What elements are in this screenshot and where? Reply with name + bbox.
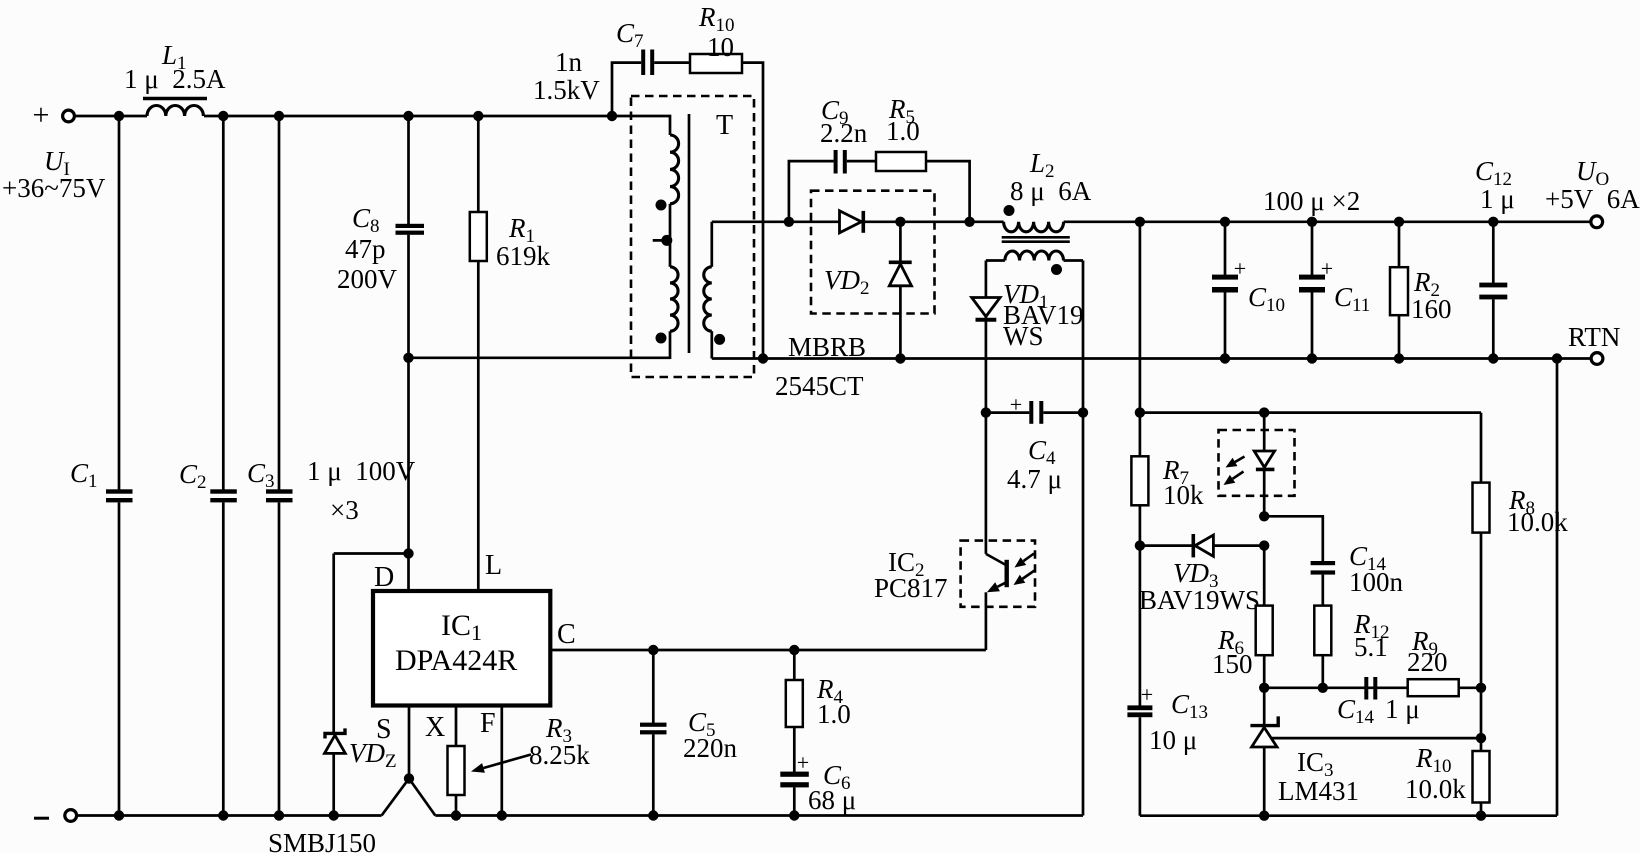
resistor R2	[1398, 222, 1401, 267]
wire riser to RTN	[1556, 359, 1559, 816]
rectifier VD2 dashed box	[811, 191, 935, 314]
svg-text:68 μ: 68 μ	[808, 785, 856, 815]
resistor R8	[1480, 413, 1483, 483]
svg-text:DPA424R: DPA424R	[395, 644, 517, 677]
wire R5 right down	[926, 161, 970, 222]
capacitor C8	[407, 116, 410, 224]
phase dot primary lower	[656, 333, 667, 344]
resistor R12	[1314, 606, 1331, 656]
wire D node to IC1	[334, 552, 409, 555]
capacitor C13	[1139, 546, 1142, 706]
node + input terminal	[63, 110, 75, 122]
IC2 light arrows	[1023, 554, 1034, 562]
wire to C7	[612, 63, 641, 116]
phase dot secondary	[714, 334, 725, 345]
wire C pin	[550, 649, 986, 652]
wire primary top lead	[669, 116, 671, 135]
wire feedback bottom rail	[1140, 814, 1557, 817]
node junctions bottom rail	[114, 810, 124, 820]
capacitor C10	[1224, 222, 1227, 275]
- input terminal	[65, 810, 77, 822]
wire RTN rail	[712, 357, 1591, 360]
L2 sense winding	[986, 259, 1005, 262]
svg-text:BAV19WS: BAV19WS	[1139, 585, 1260, 615]
output terminal UO	[1591, 216, 1603, 228]
wire feedback top line	[1140, 411, 1481, 414]
wire F pin	[500, 706, 503, 816]
wire sense winding leads	[985, 261, 988, 299]
optocoupler LED dashed box	[1219, 430, 1295, 496]
wire LED cathode to R6	[1263, 546, 1266, 606]
resistor R10 (top)	[690, 54, 742, 73]
svg-text:10k: 10k	[1163, 480, 1204, 510]
diode VD1	[972, 298, 1000, 317]
svg-text:10: 10	[707, 32, 734, 62]
capacitor C4	[986, 411, 1029, 414]
optocoupler IC2 PC817 dashed box	[961, 541, 1035, 607]
svg-text:5.1: 5.1	[1354, 632, 1388, 662]
capacitor C7	[641, 50, 645, 76]
phase dot L2 sense	[1051, 264, 1062, 275]
RTN output terminal	[1591, 353, 1603, 365]
svg-text:1.0: 1.0	[886, 116, 920, 146]
inductor L2 main winding	[1004, 222, 1064, 232]
svg-text:PC817: PC817	[874, 573, 948, 603]
wire top rail	[204, 115, 669, 118]
wire primary middle	[669, 204, 672, 267]
svg-text:47p: 47p	[345, 234, 386, 264]
L2 core bars	[1002, 236, 1070, 239]
wire primary bottom lead	[669, 331, 672, 359]
svg-text:C: C	[557, 619, 576, 650]
svg-text:+: +	[1321, 256, 1333, 281]
capacitor C6	[780, 772, 809, 777]
svg-text:8 μ 6A: 8 μ 6A	[1010, 176, 1092, 206]
svg-text:4.7 μ: 4.7 μ	[1007, 464, 1062, 494]
capacitor C5	[652, 650, 655, 723]
svg-text:×3: ×3	[330, 495, 359, 525]
svg-text:1.0: 1.0	[817, 699, 851, 729]
svg-text:2545CT: 2545CT	[775, 371, 864, 401]
shunt regulator IC3 LM431	[1263, 688, 1266, 725]
svg-text:150: 150	[1212, 649, 1253, 679]
svg-text:T: T	[716, 110, 733, 141]
wire output sense riser	[1139, 222, 1142, 413]
svg-text:SMBJ150: SMBJ150	[268, 828, 376, 853]
transformer T dashed box	[631, 96, 754, 377]
capacitor C2	[222, 116, 225, 490]
capacitor C3	[278, 116, 281, 490]
svg-text:1 μ: 1 μ	[1480, 184, 1515, 214]
wire S-pin vee	[382, 779, 436, 816]
svg-text:+: +	[33, 99, 50, 132]
resistor R7	[1139, 413, 1142, 457]
phase dot primary upper	[656, 200, 667, 211]
capacitor C14 1u	[1364, 677, 1368, 700]
node junctions top rail	[114, 111, 124, 121]
svg-text:LM431: LM431	[1278, 776, 1359, 806]
wire output rail to terminal	[1064, 220, 1591, 223]
svg-text:100n: 100n	[1349, 567, 1404, 597]
resistor R9	[1408, 679, 1459, 696]
primary tap stub	[653, 239, 670, 242]
wire LM431 ref	[1271, 737, 1481, 740]
snubber C9 R5 branch	[789, 161, 834, 222]
svg-text:220n: 220n	[683, 733, 738, 763]
svg-text:1.5kV: 1.5kV	[533, 75, 600, 105]
IC2 phototransistor	[986, 554, 1005, 565]
svg-text:+: +	[1234, 256, 1246, 281]
svg-text:+: +	[797, 750, 809, 775]
transformer core	[688, 114, 691, 353]
svg-text:1 μ 100V: 1 μ 100V	[307, 456, 416, 486]
resistor R6	[1256, 606, 1273, 656]
svg-text:220: 220	[1407, 647, 1448, 677]
wire top rail left	[75, 115, 147, 118]
capacitor C14 100n	[1311, 561, 1336, 565]
svg-text:L: L	[485, 550, 502, 581]
svg-text:D: D	[374, 562, 394, 593]
diode VD2a	[840, 211, 862, 233]
svg-text:10 μ: 10 μ	[1149, 725, 1197, 755]
phase dot L2 top	[1004, 205, 1015, 216]
svg-text:2.2n: 2.2n	[820, 118, 868, 148]
capacitor C9	[834, 150, 838, 174]
svg-text:619k: 619k	[496, 241, 551, 271]
LED light arrows	[1235, 457, 1244, 462]
zener VDz SMBJ150	[332, 554, 335, 734]
svg-text:F: F	[480, 708, 496, 739]
svg-text:+: +	[1141, 682, 1153, 707]
resistor R4	[789, 645, 799, 655]
capacitor C1	[118, 116, 121, 490]
wire S pin	[408, 706, 411, 779]
svg-text:1n: 1n	[555, 47, 583, 77]
svg-text:10.0k: 10.0k	[1405, 774, 1466, 804]
svg-text:100 μ ×2: 100 μ ×2	[1263, 186, 1360, 216]
diode VD2b	[899, 222, 902, 359]
wire mid feedback line	[1264, 686, 1408, 689]
resistor R10 (bottom)	[1473, 751, 1490, 803]
transformer primary winding lower (bias)	[670, 267, 678, 331]
inductor L1	[143, 97, 207, 100]
wire riser to C4 node	[1082, 413, 1085, 816]
transformer primary winding upper	[670, 135, 679, 204]
svg-text:X: X	[425, 712, 445, 743]
op-amp IC1 DPA424R box	[373, 591, 550, 706]
wire drain rail	[407, 356, 670, 359]
svg-text:RTN: RTN	[1568, 322, 1620, 352]
resistor R1	[477, 116, 480, 212]
svg-text:8.25k: 8.25k	[529, 740, 590, 770]
resistor R5	[876, 152, 926, 171]
svg-text:200V: 200V	[337, 264, 398, 294]
wire to C14 branch	[1264, 516, 1323, 561]
svg-text:+: +	[1010, 392, 1022, 417]
LED of optocoupler	[1263, 413, 1266, 451]
capacitor C11	[1311, 222, 1314, 275]
svg-text:+36~75V: +36~75V	[2, 173, 106, 203]
wire secondary output	[712, 220, 1004, 223]
diode VD3	[1140, 544, 1264, 547]
svg-text:WS: WS	[1003, 321, 1044, 351]
wire bottom rail	[77, 814, 382, 817]
svg-text:+5V 6A: +5V 6A	[1545, 184, 1640, 214]
svg-text:10.0k: 10.0k	[1507, 507, 1568, 537]
wire X pin / resistor R3	[455, 706, 458, 747]
capacitor C12	[1492, 222, 1495, 283]
svg-text:160: 160	[1411, 294, 1452, 324]
svg-text:1 μ: 1 μ	[1385, 694, 1420, 724]
svg-text:1 μ 2.5A: 1 μ 2.5A	[124, 64, 226, 94]
wire R10 right down to RTN	[742, 63, 763, 359]
transformer secondary winding	[710, 222, 713, 267]
